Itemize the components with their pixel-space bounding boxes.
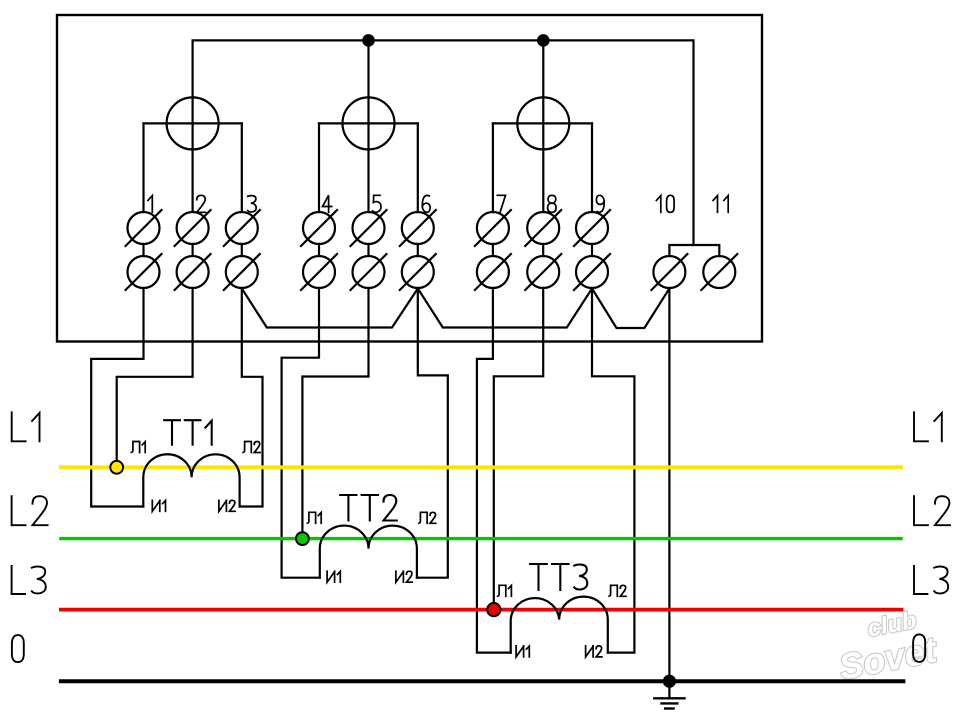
pin number 1 label: [148, 196, 152, 213]
current coil W1 horizontal cross wire: [144, 122, 242, 124]
net label L2 left: [12, 496, 48, 525]
wire coil W3 left side down to terminal row: [492, 123, 494, 212]
node L3 tap TT3 (red): [487, 603, 500, 616]
net label L1 left: [12, 412, 40, 441]
transformer TT2 primary winding: [320, 526, 417, 578]
phase line L1 (yellow): [61, 465, 901, 469]
label TT1 L1: [131, 442, 145, 453]
junction dot on bus above coil 2: [362, 34, 375, 47]
net label L2 right: [914, 496, 950, 525]
current coil W2 vertical wire from bus to terminal: [367, 40, 369, 212]
label TT3 L2: [609, 585, 626, 596]
label TT1 I2: [219, 500, 235, 511]
svg-text:Sovet: Sovet: [836, 628, 942, 687]
label TT2 L1: [307, 512, 321, 523]
terminal 4 contact circles: [303, 212, 335, 244]
wire link terminal 9 to terminal 10: [592, 289, 669, 329]
pin number 9 label: [596, 195, 604, 212]
neutral line 0 (black): [61, 679, 904, 683]
label TT2 I2: [396, 571, 412, 582]
label TT3 I2: [586, 646, 602, 657]
transformer TT1 label: [164, 420, 212, 445]
terminal 8 contact circles: [527, 212, 559, 244]
wire terminal 6 to TT2 I2: [417, 288, 448, 578]
terminal 11 contact circles: [703, 256, 735, 288]
terminal 6 contact circles: [402, 212, 434, 244]
wire terminal 9 to TT3 I2: [592, 288, 634, 653]
current coil W3 horizontal cross wire: [493, 122, 592, 124]
current coil W2 circle: [343, 97, 395, 149]
terminal 7 contact circles: [477, 212, 509, 244]
wire coil W2 left side down to terminal row: [318, 123, 320, 212]
terminal 10 contact circles: [653, 256, 685, 288]
node L2 tap TT2 (green): [296, 532, 309, 545]
pin number 5 label: [373, 195, 381, 212]
current coil W2 horizontal cross wire: [319, 122, 418, 124]
transformer TT3 primary winding: [511, 597, 608, 653]
label TT3 I1: [516, 646, 529, 657]
label TT1 L2: [243, 442, 260, 453]
net label 0 right: [913, 634, 925, 662]
pin number 10 label: [656, 195, 674, 212]
wire terminal 10 to neutral and ground: [668, 288, 670, 698]
pin number 4 label: [323, 195, 332, 212]
wire terminal 5 to TT2 L1 node: [302, 288, 368, 539]
pin number 2 label: [197, 195, 206, 212]
terminal 3 contact circles: [226, 212, 258, 244]
wire terminal 2 to TT1 L1 node: [117, 288, 193, 467]
label TT2 I1: [327, 571, 340, 582]
label TT3 L1: [498, 585, 512, 596]
net label L3 left: [12, 566, 46, 594]
wire terminal 4 to TT2 I1: [282, 288, 320, 578]
wire link terminal 3 to terminal 6: [242, 289, 418, 328]
wire coil W3 right side down to terminal row: [591, 123, 593, 212]
wire terminal 7 to TT3 I1: [477, 288, 511, 653]
pin number 6 label: [422, 195, 430, 212]
pin number 3 label: [248, 196, 257, 212]
current coil W1 circle: [167, 97, 219, 149]
wire coil W1 left side down to terminal row: [142, 123, 144, 212]
label TT2 L2: [419, 512, 436, 523]
pin number 8 label: [548, 195, 557, 212]
terminal 5 contact circles: [353, 212, 385, 244]
wire bracket over terminals 10 and 11: [669, 245, 719, 256]
junction dot on neutral line: [663, 675, 676, 688]
net label L1 right: [914, 412, 942, 441]
label TT1 I1: [152, 500, 165, 511]
terminal 2 contact circles: [177, 212, 209, 244]
wire terminal 3 to TT1 I2: [240, 288, 263, 507]
wire terminal 8 to TT3 L1 node: [494, 288, 543, 610]
terminal 1 contact circles: [128, 212, 160, 244]
wire coil W2 right side down to terminal row: [417, 123, 419, 212]
phase line L2 (green): [61, 537, 901, 540]
ground symbol: [654, 697, 684, 699]
phase line L3 (red): [61, 608, 902, 612]
wire coil W1 right side down to terminal row: [241, 123, 243, 212]
current coil W3 vertical wire from bus to terminal: [542, 40, 544, 212]
wire link terminal 6 to terminal 9: [418, 289, 592, 328]
pin number 11 label: [713, 196, 728, 213]
terminal 9 contact circles: [576, 212, 608, 244]
transformer TT1 primary winding: [143, 454, 239, 506]
pin number 7 label: [497, 195, 505, 212]
net label L3 right: [914, 566, 948, 594]
node L1 tap TT1 (yellow): [110, 461, 123, 474]
transformer TT2 label: [340, 495, 397, 521]
meter housing box: [57, 15, 762, 342]
transformer TT3 label: [530, 564, 587, 590]
wire top bus with ends down to coil 1 and to terminal 10/11 bracket: [193, 40, 694, 245]
net label 0 left: [12, 635, 24, 662]
junction dot on bus above coil 3: [537, 34, 550, 47]
watermark club sovet: [831, 604, 942, 688]
current coil W3 circle: [517, 97, 569, 149]
wire terminal 1 to TT1 I1: [91, 288, 143, 507]
